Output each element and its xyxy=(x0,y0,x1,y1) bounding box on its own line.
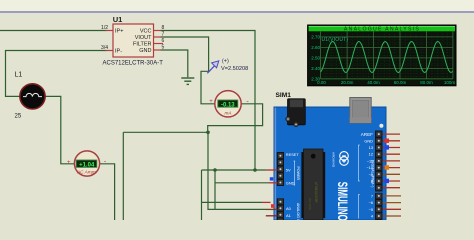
svg-text:+: + xyxy=(209,99,213,105)
pin wire stubs right side xyxy=(383,134,402,216)
wire IP+ net from left edge to U1 pin 1/2 xyxy=(0,30,107,32)
svg-text:A1: A1 xyxy=(286,213,291,218)
svg-text:U1(VIOUT): U1(VIOUT) xyxy=(322,37,349,43)
svg-text:8: 8 xyxy=(371,179,373,184)
svg-text:V=2.50208: V=2.50208 xyxy=(221,66,248,72)
svg-text:3/4: 3/4 xyxy=(101,45,108,51)
stub into A0 pin xyxy=(266,208,278,210)
pin VCC stub xyxy=(154,30,162,32)
x axis labels xyxy=(317,80,455,85)
svg-text:IP-: IP- xyxy=(115,49,122,55)
svg-text:A0: A0 xyxy=(286,206,292,211)
pin IP- stub xyxy=(106,50,114,52)
svg-text:AU 1126: AU 1126 xyxy=(308,198,312,210)
svg-text:20.0m: 20.0m xyxy=(341,80,354,85)
svg-text:ACS712ELCTR-30A-T: ACS712ELCTR-30A-T xyxy=(103,60,164,66)
junction node at meter output xyxy=(206,131,210,135)
svg-text:2.50: 2.50 xyxy=(311,56,320,61)
svg-text:2.40: 2.40 xyxy=(311,66,320,71)
wire 5V rail to Arduino 5V pin xyxy=(202,169,267,171)
svg-text:~5: ~5 xyxy=(369,207,373,212)
wire vertical branch to bottom edge xyxy=(122,132,124,220)
junction node on 5V rail xyxy=(253,168,257,172)
svg-text:~10: ~10 xyxy=(366,165,373,170)
svg-text:U1: U1 xyxy=(113,15,123,24)
USB connector xyxy=(350,98,371,124)
svg-text:VCC: VCC xyxy=(140,29,152,35)
svg-text:60.0m: 60.0m xyxy=(394,80,407,85)
stub into analog top pin xyxy=(262,201,271,203)
wire AC ammeter - going down off screen xyxy=(100,164,115,220)
svg-text:AC Amps: AC Amps xyxy=(76,170,97,175)
pin names U1 xyxy=(115,29,152,55)
red stub into Arduino GND pin xyxy=(269,182,278,184)
window top strip xyxy=(0,0,474,11)
inductor L1 xyxy=(15,72,46,120)
pin IP+ stub xyxy=(106,30,114,32)
svg-text:80.0m: 80.0m xyxy=(420,80,433,85)
wire junction down to Arduino A0 xyxy=(208,132,266,209)
svg-text:7: 7 xyxy=(371,193,373,198)
right silk labels xyxy=(361,132,374,219)
svg-text:IP+: IP+ xyxy=(115,29,123,35)
wire GND pin 5 to ground xyxy=(161,50,188,77)
svg-text:2.60: 2.60 xyxy=(311,45,320,50)
window border line xyxy=(0,11,474,13)
svg-text:5: 5 xyxy=(162,45,165,51)
left analog header xyxy=(277,198,284,220)
svg-text:40.0m: 40.0m xyxy=(367,80,380,85)
svg-text:12: 12 xyxy=(369,152,373,157)
voltage probe marker xyxy=(207,59,248,74)
wire 5V rail branch down to Arduino top analog pin xyxy=(201,170,203,220)
svg-text:AREF: AREF xyxy=(361,132,373,137)
svg-text:SIMULINO: SIMULINO xyxy=(334,182,349,220)
left silk labels xyxy=(286,152,300,218)
wire colour square red (analog pin) xyxy=(271,204,275,208)
power barrel jack xyxy=(286,99,306,127)
svg-text:1/2: 1/2 xyxy=(101,25,108,31)
svg-text:SIM1: SIM1 xyxy=(276,92,292,99)
pin FILTER stub xyxy=(154,43,164,45)
svg-text:~6: ~6 xyxy=(369,200,373,205)
svg-text:7: 7 xyxy=(162,32,165,38)
wire colour square blue (GND pin) xyxy=(270,177,273,180)
svg-text:0.00: 0.00 xyxy=(317,80,326,85)
svg-text:5V: 5V xyxy=(286,168,291,173)
wire VIOUT pin 7 to mA meter + xyxy=(161,37,215,104)
wire branch to analog header top pin xyxy=(202,201,263,203)
svg-text:+1.04: +1.04 xyxy=(79,163,95,169)
mounting hole xyxy=(379,124,383,128)
svg-text:GND: GND xyxy=(286,181,295,186)
wire L1 right to AC ammeter + xyxy=(45,96,74,163)
graph grid xyxy=(321,31,453,79)
analogue analysis graph window xyxy=(308,25,456,86)
AC ammeter (AC Amps) xyxy=(67,151,107,176)
svg-text:VIOUT: VIOUT xyxy=(135,35,152,41)
wire IP- net: left edge corner down to L1 xyxy=(6,51,107,97)
wire VCC pin 8 to 5V rail xyxy=(161,31,256,171)
POWER silk xyxy=(294,161,300,185)
wire Arduino GND pin to A1 pin xyxy=(215,182,269,184)
ANALOG IN silk xyxy=(296,203,300,223)
right digital header upper xyxy=(375,131,383,192)
wire horizontal branch node to junction xyxy=(123,131,208,133)
svg-text:13: 13 xyxy=(369,145,373,150)
stub into A1 pin xyxy=(266,215,278,217)
svg-text:ANALOGUE ANALYSIS: ANALOGUE ANALYSIS xyxy=(344,27,420,33)
digital bracket silk xyxy=(358,145,360,181)
y axis labels xyxy=(311,35,320,82)
svg-text:ATMEGA328P: ATMEGA328P xyxy=(314,182,318,203)
svg-text:POWER: POWER xyxy=(296,167,300,181)
svg-text:+: + xyxy=(67,160,71,166)
svg-text:ANALOG IN: ANALOG IN xyxy=(296,203,300,220)
waveform trace xyxy=(321,42,453,73)
red stub into Arduino 5V pin xyxy=(266,169,277,171)
ATmega328 IC xyxy=(301,149,325,220)
svg-text:GND: GND xyxy=(139,48,151,54)
right digital header lower xyxy=(375,193,383,220)
ground symbol xyxy=(181,78,194,84)
svg-text:-0.13: -0.13 xyxy=(221,102,235,108)
left power header xyxy=(277,152,284,186)
wire colour squares right side xyxy=(385,139,389,184)
svg-text:8: 8 xyxy=(162,25,165,31)
svg-text:~9: ~9 xyxy=(369,172,373,177)
svg-text:25: 25 xyxy=(15,114,22,120)
junction node A1 branch xyxy=(213,168,217,172)
wire mA meter - jog around VCC rail down to junction xyxy=(208,104,263,133)
svg-text:2.70: 2.70 xyxy=(311,35,320,40)
svg-text:RESET: RESET xyxy=(286,152,300,157)
svg-text:6: 6 xyxy=(162,38,165,44)
simulino logo xyxy=(340,152,349,166)
op-amp U1 ACS712 body xyxy=(103,15,164,66)
Arduino SIM1 board xyxy=(274,92,386,220)
svg-text:ARDUINO: ARDUINO xyxy=(332,152,336,168)
pin GND stub xyxy=(154,49,162,51)
svg-text:(+): (+) xyxy=(222,59,229,65)
svg-text:100m: 100m xyxy=(444,80,456,85)
svg-text:GND: GND xyxy=(364,138,373,143)
mA ammeter xyxy=(209,91,249,117)
svg-text:FILTER: FILTER xyxy=(133,42,152,48)
svg-text:L1: L1 xyxy=(15,72,23,79)
svg-text:mA: mA xyxy=(224,110,231,115)
pin VIOUT stub xyxy=(154,36,162,38)
svg-text:~11: ~11 xyxy=(367,158,373,163)
